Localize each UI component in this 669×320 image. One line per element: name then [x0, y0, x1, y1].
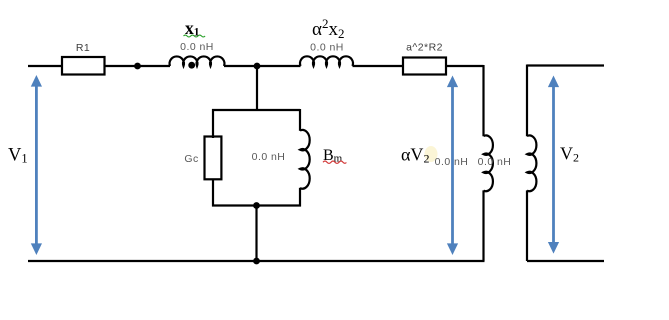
svg-text:Gc: Gc [184, 153, 198, 165]
svg-text:αV2: αV2 [401, 145, 429, 166]
arrow alpha*V2 double-headed [447, 76, 458, 256]
node junction top of shunt branch [254, 63, 261, 70]
resistor R1 [62, 57, 105, 75]
wire parallel box top bar [212, 109, 300, 111]
svg-text:a^2*R2: a^2*R2 [406, 42, 443, 54]
svg-text:R1: R1 [76, 42, 90, 54]
wire right vertical branch lower segment [482, 190, 484, 261]
wire top-left from open end to R1 [28, 65, 62, 67]
spell squiggle under Bm [323, 161, 346, 163]
arrow V1 double-headed [31, 75, 42, 255]
node junction bottom of parallel box [253, 202, 260, 209]
arrow V2 double-headed [548, 76, 559, 254]
wire alpha^2*x2 inductor to a^2*R2 resistor [353, 65, 404, 67]
resistor a^2*R2 [403, 58, 446, 75]
inductor Bm [300, 130, 310, 189]
wire parallel box left upper [212, 109, 214, 138]
wire parallel box right upper [299, 109, 301, 131]
wire secondary left vertical upper [526, 65, 528, 137]
wire parallel box left lower [212, 179, 214, 207]
svg-text:0.0 nH: 0.0 nH [478, 156, 512, 168]
resistor Gc [205, 137, 222, 180]
wire parallel box bottom bar [212, 204, 301, 206]
svg-text:V2: V2 [560, 144, 579, 165]
svg-text:0.0 nH: 0.0 nH [252, 151, 286, 163]
node junction on bottom rail [253, 258, 260, 265]
wire shunt drop to bottom rail [255, 206, 257, 262]
node dot after R1 [134, 63, 141, 70]
svg-text:0.0 nH: 0.0 nH [435, 156, 469, 168]
inductor alpha^2*x2 [300, 56, 353, 66]
wire secondary top rail [527, 64, 604, 66]
wire right vertical branch upper segment [482, 65, 484, 136]
wire shunt drop from node to parallel box [256, 66, 258, 110]
wire bottom rail [28, 260, 485, 262]
wire secondary bottom rail [527, 260, 604, 262]
node dot inside X1 inductor [188, 62, 195, 69]
svg-text:α2x2: α2x2 [312, 16, 344, 41]
wire parallel box right lower [299, 188, 301, 207]
svg-text:V1: V1 [8, 146, 28, 166]
grammar squiggle under x1 [184, 35, 206, 37]
wire R1 to X1 [105, 65, 171, 67]
highlight artifact right of alpha V2 [425, 146, 438, 162]
wire secondary left vertical lower [526, 190, 528, 261]
inductor transformer secondary coil [527, 135, 536, 191]
svg-text:0.0 nH: 0.0 nH [310, 42, 344, 54]
svg-text:0.0 nH: 0.0 nH [180, 41, 214, 53]
inductor X1 [170, 56, 225, 66]
wire X1 to junction node [224, 65, 301, 67]
inductor transformer primary coil [484, 135, 493, 191]
wire a^2*R2 to top-right corner [446, 65, 484, 67]
